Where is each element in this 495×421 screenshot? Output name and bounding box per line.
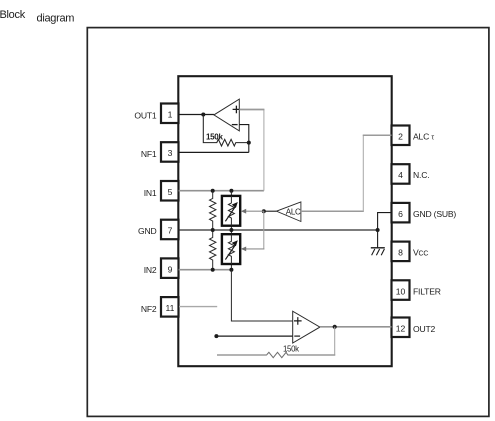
svg-text:6: 6 [398,209,403,219]
svg-text:ALC τ: ALC τ [413,132,434,142]
pin 11 box [161,297,179,317]
pin 9 box [161,258,179,278]
pin 10 box [392,280,410,300]
svg-text:IN1: IN1 [144,188,157,198]
svg-text:7: 7 [168,226,173,236]
node junction IN1/VCA1 [229,189,233,193]
wire IN2 pin9 net (gray) [179,269,232,271]
svg-text:150k: 150k [283,344,299,353]
resistor input divider upper (IN1 to GND) [210,191,216,230]
svg-text:GND: GND [138,226,157,236]
wire op-amp A1 minus input to NF1 vertical [239,125,249,153]
wire OUT2 output to pin12 (gray) [320,326,392,328]
svg-text:4: 4 [398,170,403,180]
node junction IN2/resistor [211,268,215,272]
wire GND pin7 net [179,229,378,231]
node junction IN2/VCA2 [229,268,233,272]
node junction OUT2 feedback [333,325,337,329]
pin 3 box [161,142,179,162]
pin 8 box [392,242,410,262]
svg-text:12: 12 [396,324,406,334]
svg-text:N.C.: N.C. [413,170,429,180]
svg-text:150k: 150k [206,132,223,141]
wire OUT1 pin1 to op-amp A1 output [179,114,214,116]
svg-text:OUT2: OUT2 [413,324,436,334]
wire control to VCA2 (gray) with arrowhead [241,211,264,251]
wire IN1 up to A1 plus input (gray) [263,109,265,191]
wire through VCA2 vertical [230,230,232,270]
node junction IN1/resistor [211,189,215,193]
svg-text:2: 2 [398,132,403,142]
resistor 150k feedback of A2 with wire [217,327,335,358]
resistor input divider lower (GND to IN2) [210,230,216,270]
svg-text:IN2: IN2 [144,265,157,275]
svg-text:NF2: NF2 [141,304,157,314]
node junction ALC control [262,209,266,213]
pin 1 box [161,104,179,124]
svg-text:diagram: diagram [37,13,75,25]
wire A2 minus input line with terminal dot [214,334,292,338]
svg-text:FILTER: FILTER [413,286,441,296]
wire IN1 pin5 net (gray) [179,190,264,192]
svg-text:11: 11 [166,303,175,313]
border frame [87,28,489,417]
wire NF1 pin3 [179,151,249,153]
wire ALC input from pin2 (gray) [301,210,364,212]
node junction pin6/GND net [376,228,380,232]
op-amp A1 (output to OUT1, points left) [214,99,240,131]
svg-text:ALC: ALC [286,208,301,217]
svg-text:10: 10 [396,286,406,296]
resistor R1 150k feedback of A1 [203,115,249,147]
VCA2 variable resistor box [222,234,240,264]
pin 4 box [392,164,410,184]
op-amp A2 (points right, output to OUT2) [293,311,320,343]
wire through VCA1 vertical [230,191,232,230]
svg-text:1: 1 [168,110,173,120]
svg-text:3: 3 [168,148,173,158]
node junction GND/VCA [229,228,233,232]
svg-text:OUT1: OUT1 [134,111,157,121]
pin 6 box [392,203,410,223]
svg-text:NF1: NF1 [141,149,157,159]
node junction GND/resistors [211,228,215,232]
pin 5 box [161,181,179,201]
VCA1 variable resistor box [222,196,240,226]
IC body outline [178,76,391,366]
svg-text:9: 9 [168,264,173,274]
wire control to VCA1 (gray) with arrowhead [241,209,264,214]
ALC block triangle [276,202,301,222]
wire pin6 GND(SUB) to ground [378,213,392,248]
svg-text:GND (SUB): GND (SUB) [413,209,456,219]
svg-text:8: 8 [398,248,403,258]
svg-text:5: 5 [168,187,173,197]
node junction on OUT1 wire [201,113,205,117]
pin 7 box [161,220,179,240]
pin 12 box [392,318,410,338]
node junction resistor R1 right end [247,141,251,145]
wire IN2 net down to op-amp A2 plus input [231,270,292,321]
wire ALC output to control node [264,210,277,212]
ground symbol [371,248,385,255]
svg-text:Block: Block [0,9,26,21]
title "Block diagram" [0,9,74,25]
pin 2 box [392,126,410,146]
wire NF2 pin11 stub (gray) [179,306,217,308]
